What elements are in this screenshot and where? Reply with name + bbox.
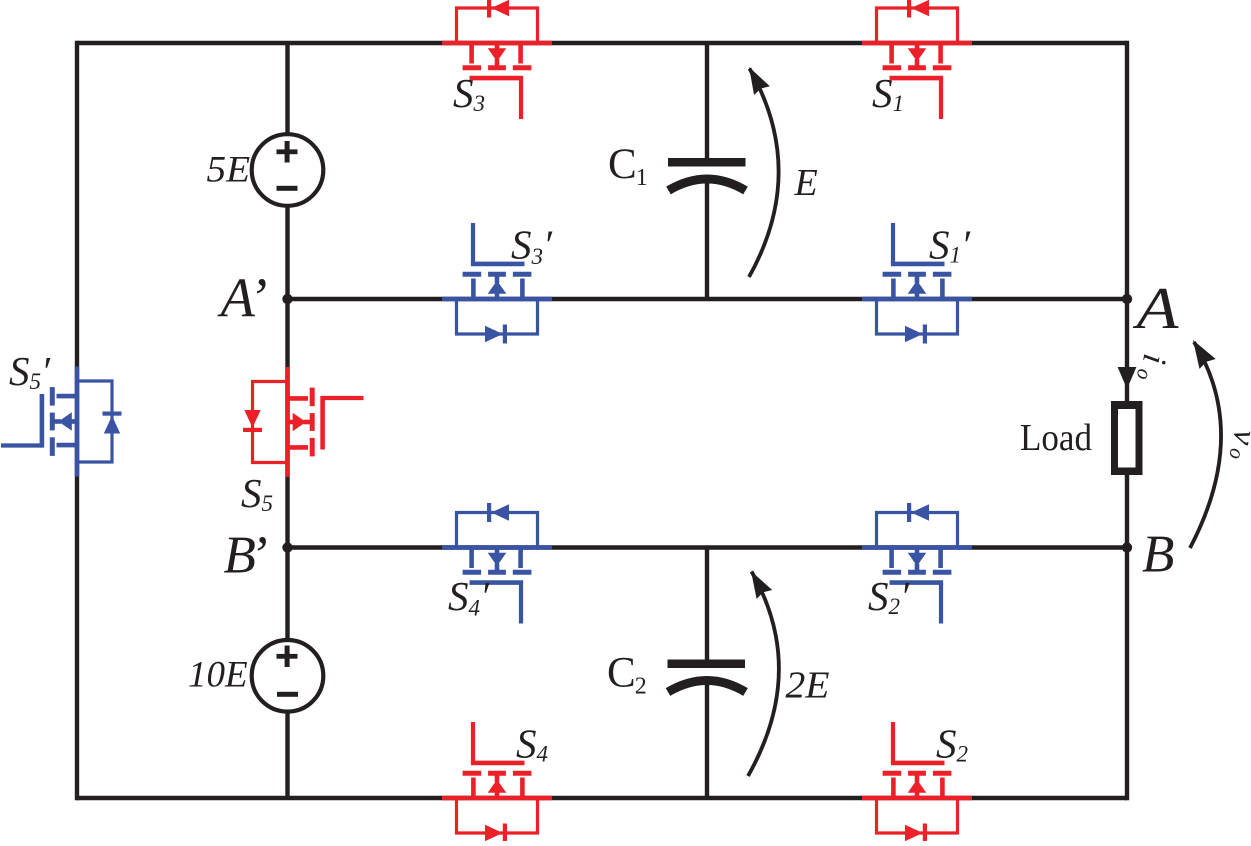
svg-text:S3′: S3′ (511, 222, 553, 270)
wire C2 to bottom rail (705, 683, 709, 799)
svg-text:2E: 2E (786, 664, 830, 706)
svg-text:B: B (1142, 526, 1174, 584)
transistor S5-prime (1, 367, 122, 477)
transistor S4-prime (442, 503, 552, 624)
arrow vo across load (1190, 340, 1221, 548)
voltage source 10E (252, 640, 324, 712)
svg-text:A’: A’ (217, 268, 268, 330)
transistor S4 (442, 722, 552, 843)
transistor S1 (862, 0, 972, 119)
transistor S5 (243, 367, 364, 477)
svg-text:o: o (1224, 447, 1249, 462)
node A (1122, 294, 1132, 304)
wire right rail lower segment (1125, 473, 1129, 800)
transistor S2-prime (862, 503, 972, 624)
wire bottom rail (77, 796, 1127, 800)
svg-text:i: i (1135, 351, 1173, 367)
svg-text:o: o (1132, 367, 1157, 382)
svg-text:5E: 5E (207, 150, 251, 191)
svg-text:S5′: S5′ (9, 348, 51, 394)
arrow E across C1 (749, 67, 779, 277)
wire 10E source to bottom rail (285, 711, 289, 798)
wire top rail to C1 (705, 43, 709, 159)
svg-text:S2′: S2′ (868, 573, 910, 619)
wire A-prime rail (288, 297, 1128, 301)
transistor S2 (862, 722, 972, 843)
node A-prime (282, 294, 292, 304)
svg-text:S2: S2 (936, 721, 968, 767)
svg-text:S1′: S1′ (929, 222, 971, 268)
wire 5E source to A-prime through S5 to 10E source (285, 206, 289, 641)
svg-text:E: E (794, 162, 818, 204)
node B (1122, 542, 1132, 552)
transistor S1-prime (862, 223, 972, 344)
transistor S3-prime (442, 223, 552, 344)
svg-text:v: v (1225, 427, 1251, 448)
capacitor C2 (668, 660, 746, 693)
svg-text:Load: Load (1020, 417, 1092, 459)
wire B-prime rail to C2 (705, 548, 709, 661)
svg-text:A: A (1132, 275, 1180, 341)
wire top rail to 5E source (285, 43, 289, 135)
svg-text:S5: S5 (241, 470, 273, 516)
transistor S3 (442, 0, 552, 119)
voltage source 5E (252, 134, 324, 206)
wire top rail (77, 41, 1127, 45)
svg-text:S4: S4 (516, 721, 548, 767)
wire right rail upper segment (1125, 41, 1129, 403)
capacitor C1 (668, 158, 746, 191)
svg-text:S4′: S4′ (448, 573, 490, 621)
svg-text:C1: C1 (608, 141, 648, 191)
node B-prime (282, 542, 292, 552)
svg-text:C2: C2 (607, 649, 647, 699)
svg-text:10E: 10E (188, 655, 248, 696)
arrow io current (1118, 367, 1137, 389)
wire left rail (75, 41, 79, 800)
load resistor (1111, 401, 1143, 475)
wire C1 to A-prime rail (705, 181, 709, 299)
wire B-prime rail (288, 545, 1128, 549)
arrow 2E across C2 (748, 571, 779, 776)
svg-text:B’: B’ (224, 527, 268, 585)
